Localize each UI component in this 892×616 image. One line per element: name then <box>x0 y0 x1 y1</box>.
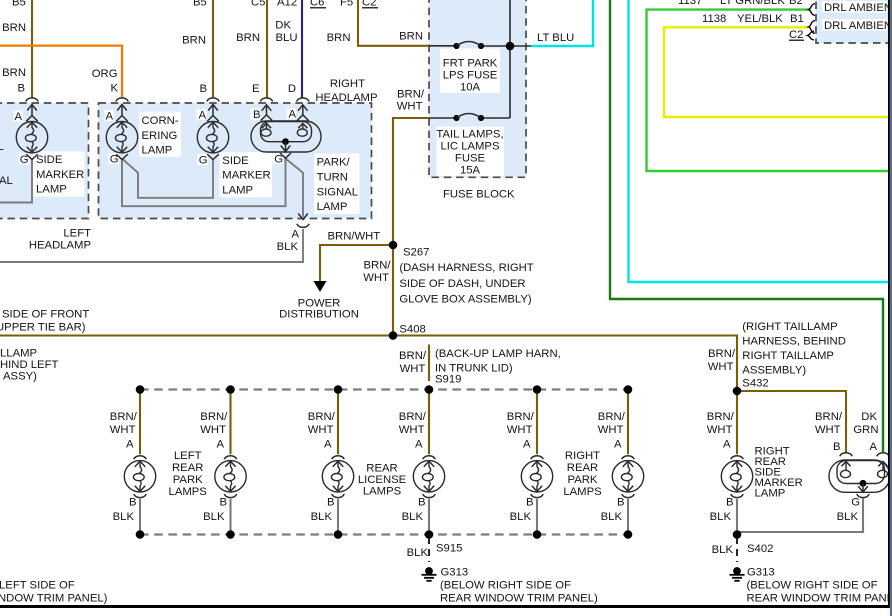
label S408 <box>399 324 425 336</box>
svg-text:LT GRN/BLK: LT GRN/BLK <box>720 0 785 7</box>
label DRL AMBIENT line2 <box>824 20 892 32</box>
svg-text:F5: F5 <box>340 0 353 9</box>
fuse TAIL LAMPS LIC LAMPS 15A <box>436 114 503 177</box>
svg-text:TURN: TURN <box>317 171 348 183</box>
svg-text:CORN-: CORN- <box>142 115 179 127</box>
wire BRN vertical to right side marker connector B <box>212 0 214 98</box>
label DRL AMBIENT line1 <box>824 2 892 14</box>
label 1137 LT GRN/BLK B2 <box>678 0 803 7</box>
svg-text:BLU: BLU <box>276 32 298 44</box>
svg-text:(BACK-UP LAMP HARN,: (BACK-UP LAMP HARN, <box>435 348 561 360</box>
svg-text:LEFT SIDE OF: LEFT SIDE OF <box>0 580 75 592</box>
svg-text:BRN/: BRN/ <box>399 411 427 423</box>
wire DK BLU vertical to park/turn connector D <box>301 0 303 98</box>
svg-text:B: B <box>129 497 137 509</box>
lamp rear license lamp 1 <box>308 411 354 523</box>
lamp right tail dual filament <box>815 411 890 523</box>
svg-text:S915: S915 <box>436 543 462 555</box>
pin label K cornering <box>110 83 118 95</box>
svg-text:A12: A12 <box>277 0 297 9</box>
svg-text:WHT: WHT <box>815 424 841 436</box>
svg-text:BRN: BRN <box>236 32 260 44</box>
svg-text:SIGNAL: SIGNAL <box>317 186 358 198</box>
wire BLK dashed from S915 to G313 <box>428 537 430 562</box>
svg-text:BLK: BLK <box>277 241 299 253</box>
connector brace B1 <box>809 21 816 34</box>
svg-text:A: A <box>291 229 299 241</box>
svg-text:WHT: WHT <box>200 424 226 436</box>
svg-text:BLK: BLK <box>712 544 734 556</box>
label RIGHT REAR PARK LAMPS <box>563 450 602 498</box>
svg-text:PARK: PARK <box>173 474 203 486</box>
label BRN/WHT at S919 drop <box>399 350 427 375</box>
svg-text:15A: 15A <box>460 165 481 177</box>
svg-text:B: B <box>418 497 426 509</box>
svg-text:BLK: BLK <box>311 511 333 523</box>
junction top bus x=628 <box>624 385 633 394</box>
wire BLK from rear lamp 2 to ground bus <box>229 499 231 535</box>
svg-text:UPPER TIE BAR): UPPER TIE BAR) <box>0 322 86 334</box>
svg-text:RIGHT TAILLAMP: RIGHT TAILLAMP <box>742 350 834 362</box>
junction top bus x=537 <box>533 385 542 394</box>
svg-text:G313: G313 <box>747 567 775 579</box>
svg-text:SIDE OF DASH, UNDER: SIDE OF DASH, UNDER <box>399 278 525 290</box>
label RIGHT HEADLAMP <box>315 78 377 104</box>
svg-text:DK: DK <box>861 411 877 423</box>
splice S408 <box>389 331 398 340</box>
svg-text:A: A <box>288 109 296 121</box>
label BRN/WHT below S267 <box>363 260 391 285</box>
svg-text:LPS FUSE: LPS FUSE <box>443 70 498 82</box>
label CORNERING LAMP <box>142 115 179 157</box>
wire BLK tail lamp ground to junction <box>737 499 863 533</box>
svg-text:BRN/: BRN/ <box>707 411 735 423</box>
svg-text:REAR: REAR <box>567 462 598 474</box>
svg-text:LAMP: LAMP <box>317 201 348 213</box>
junction top bus x=140 <box>136 385 145 394</box>
label SIDE MARKER LAMP left <box>36 154 84 195</box>
svg-text:MARKER: MARKER <box>36 169 84 181</box>
wire BLK from rear lamp 6 to ground bus <box>627 499 629 535</box>
lamp left side marker (left headlamp) <box>14 98 47 166</box>
label ORG <box>92 68 118 80</box>
lamp park/turn signal dual filament <box>251 98 321 166</box>
wire LT BLU loop right side <box>629 0 889 282</box>
splice S919 note <box>435 348 561 386</box>
svg-text:BRN: BRN <box>2 22 26 34</box>
svg-text:GLOVE BOX ASSEMBLY): GLOVE BOX ASSEMBLY) <box>399 294 532 306</box>
svg-text:WHT: WHT <box>598 424 624 436</box>
svg-text:B: B <box>17 83 25 95</box>
junction bottom bus x=537 <box>533 530 542 539</box>
svg-text:WHT: WHT <box>308 424 334 436</box>
svg-text:BRN/: BRN/ <box>399 350 427 362</box>
label BRN/WHT S267 branch <box>328 231 381 243</box>
svg-text:B: B <box>327 497 335 509</box>
svg-text:E: E <box>252 83 260 95</box>
fuse block label <box>443 189 515 201</box>
svg-text:WHT: WHT <box>708 361 734 373</box>
ground wire park/turn to connector A BLK <box>286 159 304 217</box>
svg-text:BLK: BLK <box>837 511 859 523</box>
wire BRN/WHT branch to power distribution <box>314 245 394 292</box>
svg-text:B2: B2 <box>789 0 803 7</box>
wire BRN/WHT from S408 to S919 <box>428 345 430 382</box>
cut label below left side ground <box>0 580 108 605</box>
svg-text:BLK: BLK <box>710 511 732 523</box>
svg-text:B: B <box>253 109 261 121</box>
wire BRN/WHT S432 to right rear side marker <box>736 391 738 454</box>
splice S267 note <box>399 247 533 306</box>
ground wire cornering to park/turn G <box>122 159 286 207</box>
svg-text:A: A <box>126 439 134 451</box>
svg-text:AL: AL <box>0 175 13 187</box>
svg-text:B: B <box>617 497 625 509</box>
svg-text:ORG: ORG <box>92 68 118 80</box>
wire BRN vertical to park/turn connector E <box>266 0 268 98</box>
wire BLK right side marker to ground junction <box>736 499 738 535</box>
wire YEL/BLK 1138 loop <box>664 27 888 117</box>
wire BRN/WHT from fuse2 down to S267 and S408 <box>393 118 457 336</box>
svg-text:SIDE OF FRONT: SIDE OF FRONT <box>2 309 89 321</box>
svg-text:LIC LAMPS: LIC LAMPS <box>440 141 499 153</box>
svg-text:LLAMP: LLAMP <box>0 348 37 360</box>
wire S408 bus BRN/WHT horizontal <box>0 336 737 392</box>
svg-text:BLK: BLK <box>113 511 135 523</box>
wire BLK from park/turn connector A to front ground <box>0 229 303 262</box>
label 1138 YEL/BLK B1 <box>702 13 804 25</box>
label DK BLU <box>275 20 297 45</box>
label BRN left second <box>2 67 26 79</box>
svg-text:A: A <box>198 110 206 122</box>
svg-text:G: G <box>274 154 283 166</box>
label BLK S402 <box>712 543 774 556</box>
label BRN at fuse1 <box>399 31 423 43</box>
svg-text:1137: 1137 <box>678 0 702 7</box>
svg-text:HEADLAMP: HEADLAMP <box>315 92 377 104</box>
svg-text:FUSE: FUSE <box>455 153 486 165</box>
svg-text:LAMP: LAMP <box>36 184 67 196</box>
label LEFT REAR PARK LAMPS <box>169 450 208 498</box>
lamp left rear park lamp 1 <box>110 411 156 523</box>
junction top bus x=230.5 <box>226 385 235 394</box>
wire BLK from rear lamp 4 to ground bus <box>428 499 430 535</box>
svg-text:WHT: WHT <box>707 424 733 436</box>
wire BLK dashed from S402 to G313 <box>736 537 738 562</box>
svg-text:DISTRIBUTION: DISTRIBUTION <box>279 309 359 321</box>
svg-text:RIGHT: RIGHT <box>565 450 600 462</box>
splice S919 <box>425 385 434 394</box>
wire BRN/WHT drop to rear lamp 2 <box>229 390 231 455</box>
fuse1 internal leads <box>429 45 531 47</box>
svg-text:S919: S919 <box>435 374 461 386</box>
junction fuse feed <box>506 42 515 51</box>
left headlamp box <box>0 103 89 219</box>
svg-text:LICENSE: LICENSE <box>358 474 407 486</box>
svg-text:BRN/: BRN/ <box>507 411 535 423</box>
svg-text:A: A <box>723 439 731 451</box>
svg-text:WHT: WHT <box>400 363 426 375</box>
svg-text:S267: S267 <box>403 247 429 259</box>
wire BRN/WHT drop to rear lamp 6 <box>627 390 629 455</box>
svg-text:GRN: GRN <box>853 424 878 436</box>
ground wire left headlamp side marker <box>0 159 32 203</box>
junction top bus x=338 <box>334 385 343 394</box>
svg-text:G: G <box>851 497 860 509</box>
svg-text:A: A <box>415 439 423 451</box>
fuse block feed line from top <box>509 0 511 118</box>
svg-text:WHT: WHT <box>397 101 423 113</box>
svg-text:B5: B5 <box>12 0 26 9</box>
svg-text:DRL AMBIENT: DRL AMBIENT <box>824 2 892 14</box>
svg-text:WHT: WHT <box>399 424 425 436</box>
wire BLK from rear lamp 5 to ground bus <box>536 499 538 535</box>
svg-text:(DASH HARNESS, RIGHT: (DASH HARNESS, RIGHT <box>399 262 533 274</box>
junction bottom bus x=338 <box>334 530 343 539</box>
svg-text:BLK: BLK <box>402 511 424 523</box>
svg-text:S408: S408 <box>399 324 425 336</box>
fuse FRT PARK LPS 10A <box>443 42 498 94</box>
svg-text:A: A <box>216 439 224 451</box>
svg-text:REAR: REAR <box>172 462 203 474</box>
svg-text:LT BLU: LT BLU <box>537 32 574 44</box>
label PARK/TURN SIGNAL LAMP <box>317 157 358 214</box>
svg-text:BLK: BLK <box>601 511 623 523</box>
wire BRN/WHT drop to rear lamp 1 <box>139 390 141 455</box>
svg-text:(BELOW RIGHT SIDE OF: (BELOW RIGHT SIDE OF <box>747 580 878 592</box>
svg-text:FRT PARK: FRT PARK <box>443 58 498 70</box>
svg-text:LEFT: LEFT <box>174 450 202 462</box>
svg-text:A: A <box>324 439 332 451</box>
diagram right frame line <box>888 0 890 608</box>
park/turn ground exit connector A <box>277 214 310 254</box>
svg-text:A: A <box>869 441 877 453</box>
svg-text:(RIGHT TAILLAMP: (RIGHT TAILLAMP <box>742 321 837 333</box>
label BRN park/turn E <box>236 32 260 44</box>
svg-text:WHT: WHT <box>363 272 389 284</box>
svg-text:BRN/: BRN/ <box>110 411 138 423</box>
lamp rear license lamp 2 <box>399 411 445 523</box>
svg-text:SIDE: SIDE <box>222 155 249 167</box>
svg-text:G: G <box>199 155 208 167</box>
label LEFT HEADLAMP <box>29 228 91 252</box>
cut label left taillamp harness <box>0 348 58 383</box>
wire S432 branch from S408 bus <box>737 391 846 452</box>
svg-text:ASSEMBLY): ASSEMBLY) <box>742 365 806 377</box>
svg-text:BRN/: BRN/ <box>397 89 425 101</box>
svg-text:10A: 10A <box>460 82 481 94</box>
svg-text:LAMP: LAMP <box>222 184 253 196</box>
ground G313 right <box>730 567 892 605</box>
svg-text:G: G <box>110 154 119 166</box>
svg-text:REAR WINDOW TRIM PANEL): REAR WINDOW TRIM PANEL) <box>747 593 892 605</box>
pin label D <box>288 83 296 95</box>
label RIGHT REAR SIDE MARKER LAMP <box>755 446 803 500</box>
svg-text:PARK/: PARK/ <box>317 157 351 169</box>
svg-text:BRN/: BRN/ <box>598 411 626 423</box>
svg-text:G313: G313 <box>441 567 469 579</box>
svg-text:BRN/: BRN/ <box>364 260 392 272</box>
svg-text:HARNESS, BEHIND: HARNESS, BEHIND <box>742 336 846 348</box>
junction bottom bus x=628 <box>624 530 633 539</box>
svg-text:BRN: BRN <box>182 35 206 47</box>
connector brace C2 <box>808 31 815 40</box>
svg-text:DRL AMBIENT: DRL AMBIENT <box>824 20 892 32</box>
wire LT GRN/BLK 1137 loop <box>647 10 889 171</box>
label BRN fuse feed <box>327 32 351 44</box>
svg-text:FUSE BLOCK: FUSE BLOCK <box>443 189 515 201</box>
svg-text:MARKER: MARKER <box>222 170 270 182</box>
page edge strip <box>890 0 892 616</box>
svg-text:B: B <box>726 497 734 509</box>
junction right ground <box>733 530 742 539</box>
svg-text:BRN/: BRN/ <box>308 411 336 423</box>
wire LT BLU from fuse block to top <box>531 0 593 46</box>
svg-text:D: D <box>288 83 296 95</box>
svg-text:WHT: WHT <box>507 424 533 436</box>
svg-text:LAMPS: LAMPS <box>363 486 402 498</box>
svg-text:S432: S432 <box>742 378 768 390</box>
svg-text:B: B <box>833 441 841 453</box>
svg-text:A: A <box>14 111 22 123</box>
svg-text:1138: 1138 <box>702 13 726 25</box>
pin label C2 underlined <box>789 29 804 41</box>
ground G313 center <box>422 567 598 605</box>
lamp right rear park lamp 1 <box>507 411 553 523</box>
svg-text:REAR: REAR <box>366 463 397 475</box>
svg-text:HEADLAMP: HEADLAMP <box>29 240 91 252</box>
label POWER DISTRIBUTION <box>279 298 359 321</box>
wire BRN vertical to left side marker connector B <box>31 0 33 98</box>
ground wire cornering to right side marker <box>122 159 213 198</box>
wire BRN/WHT drop to rear lamp 5 <box>536 390 538 455</box>
wire BRN from top to FRT PARK LPS fuse <box>358 0 429 46</box>
svg-text:C5: C5 <box>251 0 265 9</box>
svg-text:BRN/WHT: BRN/WHT <box>328 231 381 243</box>
svg-text:BRN: BRN <box>2 67 26 79</box>
connector brace B2 <box>809 4 816 16</box>
svg-text:B: B <box>219 497 227 509</box>
svg-text:BLK: BLK <box>407 547 429 559</box>
svg-text:RIGHT: RIGHT <box>330 78 365 90</box>
label BRN/WHT at fuse2 <box>397 89 425 113</box>
wire BRN/WHT drop to rear lamp 4 <box>428 390 430 455</box>
junction bottom bus x=429 <box>425 530 434 539</box>
svg-text:(BELOW RIGHT SIDE OF: (BELOW RIGHT SIDE OF <box>440 580 571 592</box>
lamp right side marker (right headlamp) <box>197 98 228 167</box>
svg-text:LAMP: LAMP <box>142 145 173 157</box>
fuse2 internal lead right <box>481 117 510 119</box>
wire ORG from left edge to cornering lamp connector K <box>0 46 122 98</box>
svg-text:B5: B5 <box>193 0 207 9</box>
lamp right rear park lamp 2 <box>598 411 644 523</box>
svg-text:PARK: PARK <box>568 474 598 486</box>
wire BRN/WHT drop to rear lamp 3 <box>337 390 339 455</box>
svg-text:BRN/: BRN/ <box>200 411 228 423</box>
label BLK S915 <box>407 543 463 560</box>
svg-text:REAR WINDOW TRIM PANEL): REAR WINDOW TRIM PANEL) <box>440 593 598 605</box>
svg-text:TAIL LAMPS,: TAIL LAMPS, <box>436 129 503 141</box>
svg-text:BRN: BRN <box>327 32 351 44</box>
svg-text:BRN/: BRN/ <box>815 411 843 423</box>
wire BLK from rear lamp 1 to ground bus <box>139 499 141 535</box>
svg-text:ASSY): ASSY) <box>3 371 37 383</box>
svg-text:BLK: BLK <box>510 511 532 523</box>
cut label front ground location <box>0 309 89 334</box>
svg-text:YEL/BLK: YEL/BLK <box>737 13 783 25</box>
rear harness dashed bus top S919 <box>140 388 628 390</box>
diagram bottom frame line <box>0 605 890 608</box>
DRL ambient light sensor box <box>816 0 892 43</box>
svg-text:LEFT: LEFT <box>63 228 91 240</box>
lamp left rear park lamp 2 <box>200 411 246 523</box>
svg-text:HIND LEFT: HIND LEFT <box>0 359 58 371</box>
junction bottom bus x=140 <box>136 530 145 539</box>
svg-text:B1: B1 <box>790 13 804 25</box>
label LT BLU <box>537 32 574 44</box>
label BRN/WHT at S432 <box>708 348 736 373</box>
svg-text:G: G <box>20 154 29 166</box>
svg-text:LAMPS: LAMPS <box>563 486 602 498</box>
pin label E <box>252 83 260 95</box>
svg-text:WHT: WHT <box>110 424 136 436</box>
svg-text:A: A <box>105 111 113 123</box>
svg-text:B: B <box>199 83 207 95</box>
wire DK GRN loop from top to tail lamp A <box>610 0 883 452</box>
cut pin labels top edge <box>12 0 378 9</box>
svg-text:C2: C2 <box>789 29 803 41</box>
svg-text:LAMP: LAMP <box>755 488 786 500</box>
svg-text:BRN/: BRN/ <box>708 348 736 360</box>
svg-text:A: A <box>523 439 531 451</box>
svg-text:A: A <box>614 439 622 451</box>
svg-text:B: B <box>526 497 534 509</box>
svg-text:SIDE: SIDE <box>36 154 63 166</box>
svg-text:LAMPS: LAMPS <box>169 486 208 498</box>
right headlamp box <box>99 103 372 219</box>
splice S432 note <box>742 321 846 390</box>
svg-text:BRN: BRN <box>399 31 423 43</box>
label REAR LICENSE LAMPS <box>358 463 407 498</box>
svg-text:DK: DK <box>275 20 291 32</box>
label BRN left top <box>2 22 26 34</box>
svg-text:K: K <box>110 83 118 95</box>
svg-text:BLK: BLK <box>203 511 225 523</box>
rear harness dashed bus bottom S915 <box>140 533 628 535</box>
wire BLK from rear lamp 3 to ground bus <box>337 499 339 535</box>
cut fragment labels left edge <box>0 141 13 187</box>
svg-text:S402: S402 <box>747 543 773 555</box>
fuse block box <box>429 0 526 177</box>
label halos <box>14 1 888 214</box>
junction bottom bus x=230.5 <box>226 530 235 539</box>
label BRN right side marker <box>182 35 206 47</box>
lamp cornering (right headlamp) <box>105 98 137 166</box>
pin label B right side marker <box>199 83 207 95</box>
svg-text:NDOW TRIM PANEL): NDOW TRIM PANEL) <box>0 593 108 605</box>
svg-text:L: L <box>0 141 4 153</box>
label SIDE MARKER LAMP right <box>222 155 270 196</box>
splice S432 <box>733 387 742 396</box>
svg-text:ERING: ERING <box>142 130 178 142</box>
splice S267 <box>389 241 398 250</box>
pin label B left side marker <box>17 83 25 95</box>
lamp right rear side marker lamp <box>707 411 753 523</box>
